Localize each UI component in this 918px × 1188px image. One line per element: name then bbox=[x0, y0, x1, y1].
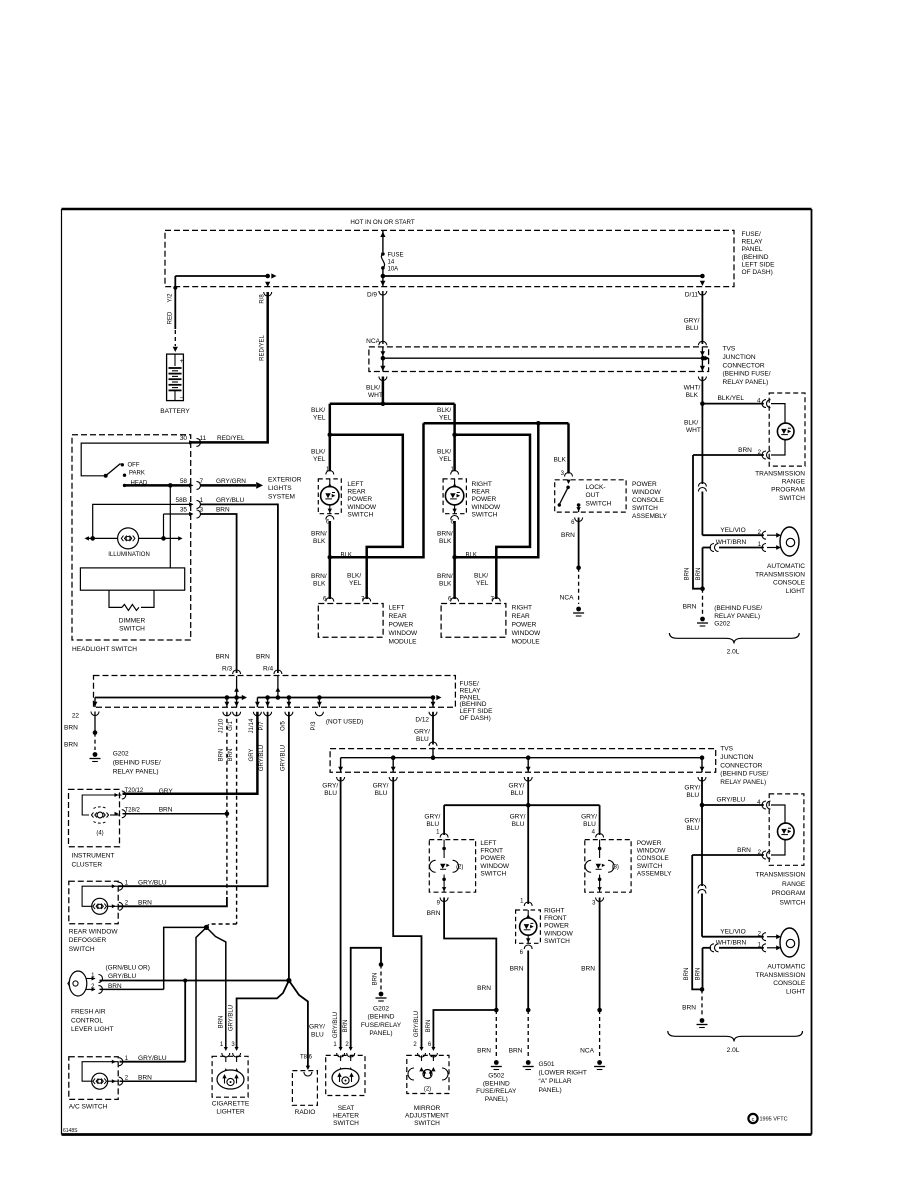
connector G/1 drop bbox=[236, 698, 238, 708]
ground G202 (right) bbox=[700, 617, 705, 622]
svg-text:J1/14: J1/14 bbox=[249, 718, 255, 733]
svg-text:BRN: BRN bbox=[427, 910, 441, 917]
wire BLK/YEL to left module pin7 bbox=[330, 435, 403, 599]
svg-text:REAR: REAR bbox=[512, 613, 530, 620]
svg-text:GRY/BLU: GRY/BLU bbox=[333, 1012, 339, 1038]
svg-text:BATTERY: BATTERY bbox=[160, 408, 190, 415]
ground G202 (left) bbox=[93, 752, 98, 757]
svg-text:BRN: BRN bbox=[218, 1016, 224, 1029]
wire GRY to instrument cluster bbox=[123, 712, 258, 794]
connector O/5 drop bbox=[288, 698, 290, 708]
svg-text:GRY: GRY bbox=[249, 749, 255, 762]
svg-text:YEL/VIO: YEL/VIO bbox=[720, 527, 745, 534]
wire GRY/BLU main vertical with inline connector bbox=[701, 805, 703, 886]
svg-text:BRN: BRN bbox=[684, 968, 690, 981]
svg-text:EXTERIOR: EXTERIOR bbox=[268, 477, 302, 484]
svg-text:REAR: REAR bbox=[472, 489, 490, 496]
svg-text:SWITCH: SWITCH bbox=[333, 1120, 359, 1127]
ground G202 (seat heater) bbox=[379, 992, 384, 997]
wire BRN G/1 dashed to junction bbox=[236, 712, 238, 924]
svg-text:BRN: BRN bbox=[218, 749, 224, 762]
left rear power window switch S2 bbox=[318, 479, 341, 514]
illumination lamp L1 bbox=[118, 528, 139, 549]
wire WHT/BRN to console light bbox=[703, 547, 712, 549]
svg-text:CONSOLE: CONSOLE bbox=[637, 855, 670, 862]
svg-text:RELAY PANEL): RELAY PANEL) bbox=[720, 779, 766, 786]
svg-text:BRN: BRN bbox=[685, 568, 691, 581]
svg-text:(3): (3) bbox=[612, 865, 619, 871]
svg-text:BLK/: BLK/ bbox=[347, 573, 361, 580]
svg-text:BLK/: BLK/ bbox=[311, 449, 325, 456]
ground NCA (lockout) bbox=[576, 607, 581, 612]
wire BRN mirror to G502 node bbox=[433, 1010, 496, 1049]
left front power window switch S10 bbox=[429, 840, 475, 893]
wire GRY/BLU TVS2 to seat heater bbox=[340, 777, 342, 1049]
svg-text:ASSEMBLY: ASSEMBLY bbox=[637, 870, 672, 877]
instrument cluster box bbox=[69, 789, 120, 846]
wire GRY/BLU A/C riser bbox=[184, 981, 186, 1062]
svg-text:NCA: NCA bbox=[366, 338, 380, 345]
svg-text:WINDOW: WINDOW bbox=[632, 489, 662, 496]
wire GRY/BLU pin1 to R/4 bbox=[201, 504, 278, 673]
svg-text:RIGHT: RIGHT bbox=[512, 605, 532, 612]
wire BRN riser to ground 2 bbox=[692, 855, 702, 989]
svg-text:BLK/: BLK/ bbox=[474, 573, 488, 580]
svg-text:YEL: YEL bbox=[439, 415, 452, 422]
svg-text:BRN: BRN bbox=[216, 654, 230, 661]
svg-text:HEADLIGHT SWITCH: HEADLIGHT SWITCH bbox=[72, 646, 137, 653]
svg-text:SWITCH: SWITCH bbox=[632, 505, 658, 512]
svg-text:(BEHIND: (BEHIND bbox=[742, 254, 769, 261]
svg-text:LEVER LIGHT: LEVER LIGHT bbox=[71, 1026, 114, 1033]
svg-text:WINDOW: WINDOW bbox=[637, 848, 667, 855]
left rear power window module M1 bbox=[318, 604, 383, 638]
wire BRN from TRPS bbox=[693, 454, 764, 456]
TVS1 exits bbox=[380, 366, 385, 371]
svg-text:(2): (2) bbox=[456, 865, 463, 871]
svg-text:BRN: BRN bbox=[561, 532, 575, 539]
TVS2 exits bbox=[340, 758, 342, 773]
svg-text:G202: G202 bbox=[113, 751, 129, 758]
wire BRN/BLK left switch to BLK node bbox=[329, 521, 332, 557]
page border frame bbox=[62, 208, 812, 211]
svg-text:GRY/: GRY/ bbox=[684, 785, 700, 792]
headlight switch lever bbox=[106, 464, 121, 476]
svg-text:BLU: BLU bbox=[686, 792, 699, 799]
svg-text:DIMMER: DIMMER bbox=[119, 618, 146, 625]
svg-text:(BEHIND: (BEHIND bbox=[483, 1080, 510, 1087]
svg-text:BLK/: BLK/ bbox=[366, 385, 380, 392]
wire GRY/BLU TVS2 center drop bbox=[527, 777, 529, 805]
node BRN G502 bbox=[494, 1008, 499, 1013]
wire GRY/BLU D/11 drop bbox=[700, 281, 705, 286]
svg-text:POWER: POWER bbox=[544, 923, 569, 930]
svg-text:POWER: POWER bbox=[637, 840, 662, 847]
svg-text:10A: 10A bbox=[388, 267, 399, 273]
R/3 R/4 panel entries bbox=[233, 670, 241, 674]
svg-text:GRY/: GRY/ bbox=[373, 783, 389, 790]
svg-text:G202: G202 bbox=[714, 621, 730, 628]
svg-text:LEFT: LEFT bbox=[347, 481, 363, 488]
svg-text:WINDOW: WINDOW bbox=[544, 930, 574, 937]
wire BLK/YEL left rear drop bbox=[329, 404, 332, 435]
svg-text:RELAY PANEL): RELAY PANEL) bbox=[113, 769, 159, 776]
TVS2 internal bus bbox=[432, 748, 434, 758]
svg-text:SWITCH: SWITCH bbox=[637, 863, 663, 870]
svg-text:BLK/: BLK/ bbox=[437, 407, 451, 414]
connector P/7 drop bbox=[267, 698, 269, 708]
svg-text:JUNCTION: JUNCTION bbox=[723, 354, 756, 361]
svg-text:GRY/: GRY/ bbox=[414, 729, 430, 736]
svg-text:D/11: D/11 bbox=[685, 292, 699, 299]
wire BLK lockout drop bbox=[567, 423, 570, 473]
connector P/3 not used bbox=[318, 698, 320, 708]
svg-text:WINDOW: WINDOW bbox=[512, 630, 542, 637]
transmission range program switch LED bbox=[777, 423, 794, 440]
illumination lamp line bbox=[86, 537, 181, 539]
svg-text:G502: G502 bbox=[488, 1073, 504, 1080]
svg-text:J1/10: J1/10 bbox=[218, 718, 224, 733]
svg-text:BLK/: BLK/ bbox=[437, 449, 451, 456]
svg-text:G202: G202 bbox=[373, 1006, 389, 1013]
svg-text:BLK: BLK bbox=[313, 538, 326, 545]
svg-text:BRN: BRN bbox=[477, 985, 491, 992]
svg-text:TRANSMISSION: TRANSMISSION bbox=[755, 872, 805, 879]
svg-text:NCA: NCA bbox=[580, 1048, 594, 1055]
svg-text:WHT: WHT bbox=[686, 427, 701, 434]
wire GRY/BLU node to radio bbox=[289, 981, 308, 1069]
svg-text:GRY/: GRY/ bbox=[509, 783, 525, 790]
svg-text:FUSE/RELAY: FUSE/RELAY bbox=[476, 1088, 517, 1095]
pin 35 / 3 BRN bbox=[164, 513, 191, 515]
svg-text:BLU: BLU bbox=[324, 790, 337, 797]
TVS1 internal bus bbox=[379, 341, 387, 345]
wire BRN T28/2 bbox=[123, 813, 227, 815]
wire 22 to ground G202 left bbox=[94, 698, 96, 708]
svg-text:RED/YEL: RED/YEL bbox=[260, 335, 266, 361]
svg-text:BRN: BRN bbox=[696, 568, 702, 581]
svg-text:BLK: BLK bbox=[439, 581, 452, 588]
svg-text:SWITCH: SWITCH bbox=[472, 511, 498, 518]
svg-text:P/3: P/3 bbox=[311, 721, 317, 731]
svg-text:58B: 58B bbox=[176, 497, 187, 504]
node BLK/WHT dot bbox=[700, 401, 705, 406]
svg-text:BRN: BRN bbox=[683, 604, 697, 611]
svg-text:RELAY PANEL): RELAY PANEL) bbox=[714, 613, 760, 620]
svg-text:30: 30 bbox=[180, 435, 188, 442]
wire BLK/WHT below TVS1 left bbox=[382, 377, 385, 404]
svg-text:G/1: G/1 bbox=[228, 721, 234, 731]
svg-text:PARK: PARK bbox=[129, 471, 145, 477]
svg-text:SWITCH: SWITCH bbox=[779, 495, 805, 502]
svg-text:SWITCH: SWITCH bbox=[119, 626, 145, 633]
svg-text:FUSE: FUSE bbox=[388, 253, 404, 259]
svg-text:2.0L: 2.0L bbox=[727, 649, 740, 656]
wire BRN/BLK to right module pin6 bbox=[453, 557, 456, 599]
wire GRY/BLU fresh air to node bbox=[100, 980, 289, 982]
wire BRN A/C pin2 bbox=[120, 1080, 197, 1082]
wire GRY/BLU A/C pin1 bbox=[120, 1061, 186, 1063]
connector D/12 drop bbox=[432, 698, 434, 708]
svg-text:c: c bbox=[752, 1117, 755, 1123]
svg-text:REAR: REAR bbox=[347, 489, 365, 496]
svg-text:PANEL: PANEL bbox=[742, 246, 763, 253]
svg-text:RIGHT: RIGHT bbox=[544, 908, 564, 915]
svg-text:SYSTEM: SYSTEM bbox=[268, 494, 295, 501]
svg-text:BRN: BRN bbox=[228, 749, 234, 762]
svg-text:LIGHTS: LIGHTS bbox=[268, 485, 292, 492]
svg-text:(BEHIND FUSE/: (BEHIND FUSE/ bbox=[714, 605, 762, 612]
svg-text:CLUSTER: CLUSTER bbox=[72, 862, 103, 869]
wire BLK/YEL to right module pin7 bbox=[455, 435, 530, 599]
svg-text:WHT/BRN: WHT/BRN bbox=[716, 940, 747, 947]
svg-text:BRN: BRN bbox=[138, 1074, 152, 1081]
svg-text:MODULE: MODULE bbox=[389, 639, 418, 646]
svg-text:LIGHTER: LIGHTER bbox=[216, 1109, 245, 1116]
wire GRY/BLU TVS2 right drop bbox=[701, 777, 703, 805]
svg-text:GRY/: GRY/ bbox=[424, 814, 440, 821]
wire YEL/VIO to console light 2 bbox=[702, 936, 764, 938]
svg-text:MIRROR: MIRROR bbox=[414, 1105, 441, 1112]
svg-text:BLK/: BLK/ bbox=[311, 407, 325, 414]
pin 58B / 1 GRY/BLU bbox=[93, 504, 191, 538]
svg-text:R/8: R/8 bbox=[260, 294, 266, 304]
svg-text:G501: G501 bbox=[539, 1061, 555, 1068]
svg-text:BRN/: BRN/ bbox=[437, 531, 453, 538]
svg-text:DEFOGGER: DEFOGGER bbox=[69, 937, 107, 944]
svg-text:BRN/: BRN/ bbox=[311, 531, 327, 538]
wire GRY/BLU O/5 to illumination node bbox=[288, 712, 290, 980]
svg-text:PANEL): PANEL) bbox=[485, 1096, 508, 1103]
svg-text:GRY/: GRY/ bbox=[581, 814, 597, 821]
svg-text:BRN: BRN bbox=[737, 847, 751, 854]
svg-text:GRY/GRN: GRY/GRN bbox=[216, 478, 246, 485]
svg-text:BLK: BLK bbox=[686, 392, 699, 399]
svg-text:YEL: YEL bbox=[476, 580, 489, 587]
node GRY/BLU illumination splice bbox=[286, 978, 291, 983]
svg-text:FUSE/: FUSE/ bbox=[742, 231, 761, 238]
wire hot bus segment right (fuse to D/11) bbox=[383, 275, 703, 277]
svg-text:BLU: BLU bbox=[686, 325, 699, 332]
svg-text:(BEHIND: (BEHIND bbox=[368, 1014, 395, 1021]
svg-text:GRY/BLU: GRY/BLU bbox=[414, 1011, 420, 1037]
ground G502 bbox=[494, 1060, 499, 1065]
svg-text:D/9: D/9 bbox=[367, 292, 377, 299]
svg-text:BRN: BRN bbox=[695, 968, 701, 981]
svg-text:SWITCH: SWITCH bbox=[586, 500, 612, 507]
headlight switch S1 box bbox=[72, 435, 191, 640]
svg-text:LEFT SIDE: LEFT SIDE bbox=[742, 261, 776, 268]
svg-text:BRN: BRN bbox=[64, 742, 78, 749]
fresh air control lever light L3 bbox=[69, 971, 87, 996]
wire BRN splice to fresh air pin2 bbox=[164, 927, 207, 989]
svg-text:REAR WINDOW: REAR WINDOW bbox=[69, 929, 119, 936]
wire WHT/BRN to console light 2 bbox=[703, 947, 712, 949]
svg-text:BRN: BRN bbox=[159, 807, 173, 814]
logo 1995 VFTC bbox=[748, 1114, 757, 1123]
svg-text:T8/6: T8/6 bbox=[300, 1055, 313, 1061]
fuse/relay panel box (middle) bbox=[94, 676, 456, 708]
svg-text:58: 58 bbox=[180, 478, 188, 485]
svg-text:2.0L: 2.0L bbox=[727, 1047, 740, 1054]
svg-text:22: 22 bbox=[72, 713, 80, 720]
svg-text:CONTROL: CONTROL bbox=[71, 1017, 103, 1024]
svg-text:GRY/: GRY/ bbox=[322, 783, 338, 790]
wire GRY/BLU node to cigarette lighter pin3 bbox=[237, 981, 289, 1049]
svg-text:BLU: BLU bbox=[511, 790, 524, 797]
dimmer rheostat R1 bbox=[109, 590, 122, 607]
svg-text:YEL: YEL bbox=[313, 456, 326, 463]
svg-text:SWITCH: SWITCH bbox=[779, 899, 805, 906]
svg-text:GRY/: GRY/ bbox=[684, 318, 700, 325]
svg-text:7: 7 bbox=[200, 478, 204, 485]
wire BRN pin3 to R/3 bbox=[201, 514, 237, 673]
svg-text:AUTOMATIC: AUTOMATIC bbox=[767, 964, 805, 971]
wire GRY/BLU front switch bus bbox=[444, 804, 599, 806]
svg-text:POWER: POWER bbox=[472, 496, 497, 503]
automatic transmission console light L4 bbox=[780, 928, 799, 957]
svg-text:BRN: BRN bbox=[581, 966, 595, 973]
svg-text:TRANSMISSION: TRANSMISSION bbox=[755, 972, 805, 979]
wire GRY/BLU TVS2 to mirror switch bbox=[393, 777, 421, 1049]
svg-text:CONSOLE: CONSOLE bbox=[632, 497, 665, 504]
svg-text:BRN: BRN bbox=[256, 654, 270, 661]
svg-text:BRN: BRN bbox=[510, 966, 524, 973]
instrument cluster lamp (4) bbox=[91, 813, 93, 818]
svg-text:(BEHIND FUSE/: (BEHIND FUSE/ bbox=[723, 371, 771, 378]
svg-text:LIGHT: LIGHT bbox=[786, 988, 805, 995]
svg-text:ADJUSTMENT: ADJUSTMENT bbox=[405, 1113, 449, 1120]
bus inside panel2 right segment bbox=[257, 697, 433, 699]
svg-text:R/3: R/3 bbox=[222, 666, 233, 673]
svg-text:6148S: 6148S bbox=[63, 1128, 78, 1134]
instrument cluster pins bbox=[122, 791, 126, 799]
node BRN NCA console bbox=[597, 1008, 602, 1013]
svg-text:O/5: O/5 bbox=[280, 721, 286, 731]
wire WHT/BLK below TVS1 right bbox=[701, 377, 703, 404]
wire BRN seat heater to ground G202 bbox=[351, 948, 381, 1049]
automatic transmission console light L2 bbox=[780, 527, 799, 556]
ground (right bottom) bbox=[700, 1018, 705, 1023]
svg-text:A/C SWITCH: A/C SWITCH bbox=[69, 1104, 108, 1111]
svg-text:BLU: BLU bbox=[426, 821, 439, 828]
svg-text:TRANSMISSION: TRANSMISSION bbox=[755, 471, 805, 478]
svg-text:POWER: POWER bbox=[347, 496, 372, 503]
svg-text:BLU: BLU bbox=[416, 736, 429, 743]
svg-text:FRONT: FRONT bbox=[480, 848, 503, 855]
svg-text:WHT/BRN: WHT/BRN bbox=[716, 539, 747, 546]
wire BRN left front to G502 node bbox=[444, 898, 496, 1011]
svg-text:WINDOW: WINDOW bbox=[347, 504, 377, 511]
connector J1/14 drop GRY bbox=[256, 698, 258, 708]
wire BLK/YEL feed bus bbox=[330, 402, 455, 405]
A/C switch S7 bbox=[69, 1057, 118, 1100]
svg-text:(GRN/BLU OR): (GRN/BLU OR) bbox=[106, 965, 150, 972]
ground G501 bbox=[526, 1060, 531, 1065]
svg-text:YEL: YEL bbox=[349, 580, 362, 587]
svg-text:11: 11 bbox=[200, 435, 207, 442]
wire BLK/YEL right rear drop bbox=[453, 404, 456, 472]
svg-text:SWITCH: SWITCH bbox=[347, 511, 373, 518]
wire GRY/BLU right front drop bbox=[527, 805, 529, 904]
svg-text:PANEL): PANEL) bbox=[369, 1030, 392, 1037]
headlight switch internal wire pin30 to rotor bbox=[81, 443, 191, 476]
svg-text:RIGHT: RIGHT bbox=[472, 481, 492, 488]
svg-text:GRY/BLU: GRY/BLU bbox=[108, 973, 136, 980]
svg-text:CONSOLE: CONSOLE bbox=[773, 980, 806, 987]
svg-text:BLU: BLU bbox=[375, 790, 388, 797]
wire BRN splice to cigarette lighter pin1 bbox=[206, 927, 225, 1048]
wire BRN from TRPS2 bbox=[692, 854, 764, 856]
svg-text:BRN: BRN bbox=[216, 507, 230, 514]
svg-text:JUNCTION: JUNCTION bbox=[720, 754, 753, 761]
wire BRN/BLK to left module pin6 bbox=[329, 557, 332, 599]
svg-text:CONSOLE: CONSOLE bbox=[773, 580, 806, 587]
svg-text:FRONT: FRONT bbox=[544, 915, 567, 922]
wire GRY/BLU left front drop bbox=[443, 805, 445, 835]
svg-text:BRN: BRN bbox=[426, 1020, 432, 1033]
svg-text:R/4: R/4 bbox=[263, 666, 274, 673]
battery B1 bbox=[167, 354, 184, 401]
transmission range program switch S13 box bbox=[769, 794, 804, 865]
svg-text:BLU: BLU bbox=[686, 825, 699, 832]
wire hot bus segment left (battery feed) bbox=[175, 275, 267, 277]
svg-text:BLK: BLK bbox=[554, 457, 567, 464]
svg-text:(2): (2) bbox=[424, 1087, 431, 1093]
svg-text:POWER: POWER bbox=[389, 622, 414, 629]
connector J1/10 drop bbox=[226, 698, 228, 708]
instrument cluster internal wiring bbox=[82, 795, 121, 815]
TVS junction connector (top) box bbox=[369, 347, 709, 372]
svg-text:OF DASH): OF DASH) bbox=[742, 269, 773, 276]
power window console switch assembly S12 (illumination) bbox=[585, 840, 631, 893]
svg-text:1: 1 bbox=[200, 497, 204, 504]
svg-text:YEL: YEL bbox=[439, 456, 452, 463]
svg-text:BRN: BRN bbox=[64, 725, 78, 732]
svg-text:(4): (4) bbox=[96, 831, 103, 837]
wire BRN riser to ground bbox=[693, 455, 703, 589]
svg-text:RADIO: RADIO bbox=[295, 1109, 316, 1116]
svg-text:MODULE: MODULE bbox=[512, 639, 541, 646]
svg-text:(BEHIND FUSE/: (BEHIND FUSE/ bbox=[113, 760, 161, 767]
headlight switch body bbox=[80, 568, 184, 590]
bus inside panel2 left segment bbox=[95, 697, 243, 699]
node BRN splice bbox=[204, 925, 209, 930]
svg-text:SWITCH: SWITCH bbox=[69, 946, 95, 953]
wire GRY/BLU console assembly drop bbox=[599, 805, 601, 835]
wire BRN console assembly to NCA ground bbox=[599, 898, 601, 1011]
svg-text:POWER: POWER bbox=[632, 481, 657, 488]
svg-text:REAR: REAR bbox=[389, 613, 407, 620]
svg-text:HEATER: HEATER bbox=[333, 1113, 359, 1120]
wire NCA fuse to TVS1 bbox=[382, 276, 384, 287]
svg-text:WINDOW: WINDOW bbox=[480, 863, 510, 870]
ground NCA (console assembly) bbox=[597, 1060, 602, 1065]
svg-text:BRN: BRN bbox=[373, 973, 379, 986]
svg-text:CONNECTOR: CONNECTOR bbox=[720, 762, 762, 769]
brace 2.0L (bottom) bbox=[668, 1031, 803, 1042]
right rear power window module M2 bbox=[441, 604, 506, 638]
wire YEL/VIO to console light bbox=[702, 534, 763, 536]
svg-text:YEL/VIO: YEL/VIO bbox=[720, 928, 745, 935]
svg-text:BLK/: BLK/ bbox=[684, 420, 698, 427]
svg-text:(BEHIND FUSE/: (BEHIND FUSE/ bbox=[720, 771, 768, 778]
svg-text:PROGRAM: PROGRAM bbox=[771, 487, 805, 494]
svg-text:BLU: BLU bbox=[512, 821, 525, 828]
svg-text:LIGHT: LIGHT bbox=[786, 588, 805, 595]
TVS junction connector (bottom) box bbox=[330, 749, 716, 773]
svg-text:SWITCH: SWITCH bbox=[414, 1120, 440, 1127]
